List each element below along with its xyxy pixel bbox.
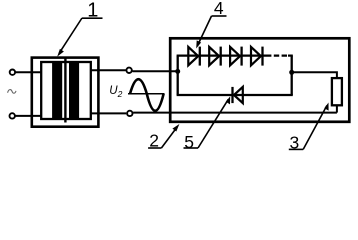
wire resistor bottom to return xyxy=(336,105,338,112)
callout 5 leader arrow xyxy=(198,96,230,148)
callout 2 underline xyxy=(148,147,161,149)
wire transformer to right-bottom terminal xyxy=(91,112,126,114)
transformer core line xyxy=(64,58,66,123)
diode VD5 (zener direction left) xyxy=(233,87,243,103)
wire left-top terminal to transformer xyxy=(16,71,42,73)
resistor R (3) xyxy=(332,78,342,105)
sine wave axis line xyxy=(128,93,165,95)
inner loop top-right corner wire xyxy=(288,54,293,56)
AC tilde symbol xyxy=(8,90,16,94)
junction dot B xyxy=(289,70,294,75)
diode VD3 xyxy=(230,47,242,66)
wire right-top terminal to box junction A xyxy=(132,70,177,72)
rectifier box 2 outline xyxy=(170,38,349,122)
callout 4 underline xyxy=(212,15,227,17)
callout 3 leader arrow xyxy=(303,103,328,150)
junction dot A xyxy=(175,69,180,74)
sine wave symbol xyxy=(130,79,164,111)
transformer T1 outer box xyxy=(32,58,99,127)
wire left-bottom terminal to transformer xyxy=(15,115,41,117)
wire junction B to resistor top xyxy=(292,72,337,78)
transformer right winding bar xyxy=(69,62,79,119)
terminal circle left-top xyxy=(10,70,15,75)
diode VD2 xyxy=(209,47,221,66)
svg-text:U2: U2 xyxy=(109,85,122,99)
inner loop top wire xyxy=(177,54,266,56)
callout 1 underline xyxy=(82,17,103,19)
transformer winding frame xyxy=(41,62,91,119)
terminal circle right-bottom xyxy=(127,111,132,116)
callout 5 underline xyxy=(184,147,199,149)
diode VD1 xyxy=(188,47,200,66)
inner loop right vertical wire xyxy=(291,56,293,95)
inner loop left vertical wire xyxy=(177,56,179,95)
wire transformer to right-top terminal xyxy=(91,69,126,71)
callout 4 leader arrow xyxy=(196,16,211,49)
terminal circle left-bottom xyxy=(10,113,15,118)
callout 2 leader arrow xyxy=(161,124,179,148)
transformer left winding bar xyxy=(52,62,62,119)
terminal circle right-top xyxy=(126,68,131,73)
inner loop bottom wire xyxy=(177,94,293,96)
callout 1 leader arrow xyxy=(57,18,82,57)
wire right-bottom terminal to resistor bottom xyxy=(133,112,337,114)
diode VD4 xyxy=(251,47,263,66)
inner loop top dashed wire xyxy=(266,54,287,56)
callout 3 underline xyxy=(289,148,303,150)
